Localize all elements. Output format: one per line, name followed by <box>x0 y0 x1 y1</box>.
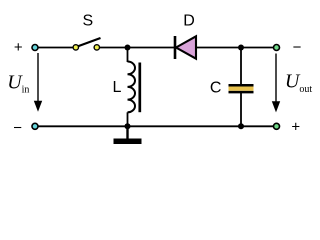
svg-text:S: S <box>82 13 93 30</box>
svg-text:L: L <box>113 79 122 96</box>
svg-text:D: D <box>183 13 195 30</box>
svg-text:out: out <box>299 84 312 95</box>
svg-text:−: − <box>13 120 22 137</box>
svg-text:+: + <box>291 118 300 135</box>
svg-text:+: + <box>14 39 23 56</box>
svg-text:in: in <box>22 84 30 95</box>
svg-text:C: C <box>210 80 222 97</box>
svg-text:−: − <box>293 39 302 56</box>
